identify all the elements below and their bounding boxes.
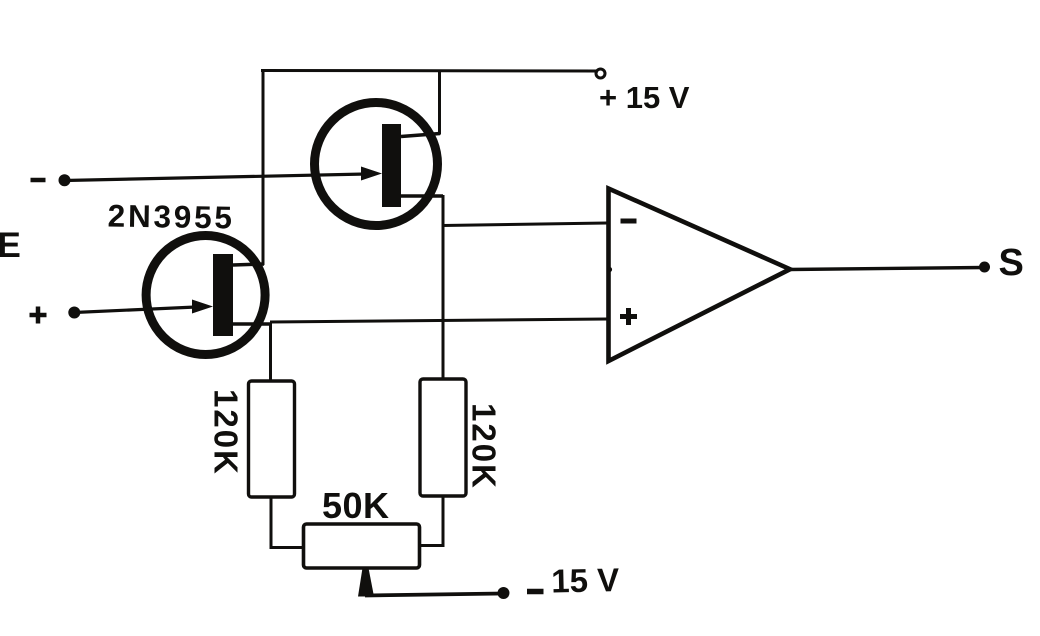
svg-text:120K: 120K: [466, 403, 503, 490]
wire: R1 bottom to potentiometer left end: [271, 496, 303, 548]
svg-text:15 V: 15 V: [551, 561, 620, 599]
transistor Q1 (2N3955 section): [146, 236, 271, 355]
svg-text:E: E: [0, 226, 21, 265]
node: minus input terminal dot: [59, 174, 71, 186]
wire: Q1 source junction to op-amp non-inverting input: [270, 319, 607, 322]
potentiometer R3 50K body: [304, 524, 420, 568]
wire: Q2 source junction to op-amp inverting input: [443, 223, 607, 226]
wire: minus input to Q2 gate: [65, 174, 367, 181]
node: -15V terminal dot: [498, 587, 510, 599]
wire: Q2 source vertical down to right 120K: [442, 195, 445, 380]
terminal: +15V open circle: [596, 69, 605, 78]
node: S output terminal dot: [979, 262, 990, 273]
wire: R2 bottom to potentiometer right end: [419, 495, 443, 546]
op-amp U1: [607, 189, 790, 362]
label: minus sign at input: [31, 178, 46, 183]
wire: +15V top rail: [261, 69, 598, 73]
svg-text:S: S: [999, 242, 1024, 284]
wire: Q1 source vertical down to left 120K: [269, 323, 272, 382]
wire: plus input to Q1 gate: [74, 307, 196, 313]
potentiometer wiper arrow: [358, 568, 374, 597]
node: plus input terminal dot: [68, 307, 80, 319]
wire: left vertical, rail to Q1 drain: [262, 69, 265, 265]
label: -15V: [527, 561, 620, 599]
svg-text:2N3955: 2N3955: [107, 197, 235, 235]
svg-text:120K: 120K: [208, 389, 245, 476]
wire: rail down to Q2 drain: [438, 70, 441, 135]
label: plus sign at input: [30, 307, 47, 324]
wire: wiper to -15V terminal: [365, 594, 502, 596]
transistor Q2 (2N3955 section): [315, 103, 444, 226]
resistor R1 120K (left): [249, 381, 295, 497]
wire: op-amp output to S terminal: [789, 268, 984, 270]
svg-text:50K: 50K: [322, 485, 390, 526]
resistor R2 120K (right): [420, 379, 466, 496]
svg-text:+ 15 V: + 15 V: [599, 80, 690, 115]
